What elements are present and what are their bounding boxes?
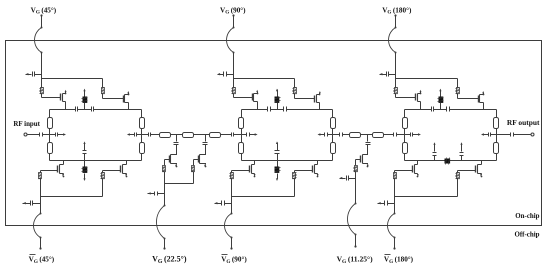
wire — [457, 178, 459, 197]
capacitor C16 series — [432, 107, 434, 112]
capacitor C5 series — [92, 107, 94, 112]
capacitor C31 bypass — [155, 192, 165, 196]
ground arrow — [380, 73, 387, 75]
wire — [355, 172, 357, 179]
wire gate right — [103, 94, 124, 99]
wire — [497, 134, 511, 136]
wire — [394, 204, 396, 215]
transistor M10 stage3 top right — [479, 91, 485, 110]
wire — [242, 134, 247, 136]
resistor R32 gate bias — [354, 166, 358, 172]
wire — [277, 161, 279, 168]
wire — [394, 171, 396, 173]
ground arrow — [23, 202, 31, 204]
inductor Lind5 stage3 top — [438, 97, 444, 103]
wire — [233, 79, 235, 88]
resistor R27 series — [210, 133, 221, 138]
wire — [355, 160, 357, 166]
wire — [440, 103, 442, 110]
capacitor C27 series — [394, 133, 397, 137]
wire — [40, 204, 42, 215]
node top pad VG(180°) — [394, 14, 396, 16]
capacitor C22 bypass — [385, 201, 395, 206]
capacitor C21 shunt — [460, 153, 464, 156]
wire — [393, 238, 395, 250]
wire — [277, 103, 279, 110]
resistor R18 gate bias — [456, 88, 460, 94]
wire — [50, 134, 56, 136]
capacitor C19 — [489, 133, 491, 137]
net VG(11.25deg) bias label — [337, 255, 374, 265]
capacitor C24 series — [149, 133, 151, 137]
resistor R11 edge — [239, 118, 244, 129]
resistor R30 gate bias — [163, 166, 166, 172]
wire — [333, 134, 340, 136]
wire — [193, 160, 195, 166]
RF input label — [13, 120, 40, 128]
wire — [151, 134, 160, 136]
wire bottom rail — [242, 160, 333, 162]
resistor R21 edge — [494, 118, 499, 129]
wire — [394, 178, 396, 197]
ground arrow — [148, 192, 155, 194]
wire — [39, 238, 41, 250]
transistor M8 stage2 bottom right — [295, 161, 319, 178]
wire — [233, 16, 235, 28]
bond wire bottom 22.5deg — [156, 206, 165, 240]
wire edge — [241, 110, 243, 118]
supply arrow up — [83, 89, 85, 97]
bond wire top 45° — [35, 27, 43, 54]
wire — [233, 53, 235, 79]
capacitor C10 series — [268, 107, 271, 112]
resistor R29 series — [373, 133, 384, 138]
bond wire bottom 11.25deg — [347, 204, 356, 236]
wire edge — [49, 129, 51, 143]
wire — [194, 134, 210, 136]
wire — [355, 179, 357, 205]
transistor M3 stage1 bottom left — [41, 161, 65, 178]
wire gate left — [234, 94, 253, 98]
svg-text:VG (90°): VG (90°) — [220, 6, 246, 15]
net VG(180°) top bias label — [382, 6, 412, 15]
capacitor C33 bypass — [347, 176, 356, 181]
transistor M9 stage3 top left — [416, 90, 422, 110]
wire edge — [496, 110, 498, 118]
resistor R2 gate bias — [102, 88, 105, 94]
wire — [395, 79, 397, 88]
wire — [40, 178, 42, 197]
capacitor C23 input — [40, 133, 43, 137]
wire edge — [141, 110, 143, 118]
resistor R28 series — [350, 133, 361, 138]
net VG(90°) top bias label — [220, 6, 246, 15]
capacitor C12 — [247, 133, 250, 137]
wire top rail — [405, 109, 432, 111]
port RF output — [531, 133, 534, 136]
wire edge — [49, 154, 51, 161]
wire — [461, 156, 463, 161]
wire — [84, 161, 86, 168]
wire shunt branch — [367, 135, 369, 142]
resistor R15 gate bias — [230, 173, 234, 179]
wire — [434, 156, 436, 161]
wire — [354, 235, 356, 248]
bond wire bottom 90° — [225, 214, 233, 239]
capacitor C2 bypass — [224, 72, 234, 77]
resistor R26 series — [183, 133, 194, 138]
wire — [176, 145, 178, 153]
ground arrow — [217, 73, 223, 75]
wire — [231, 197, 233, 204]
arrow into stage right — [318, 133, 325, 135]
svg-text:RF input: RF input — [13, 120, 40, 128]
RF output label — [507, 119, 540, 127]
wire — [193, 172, 195, 184]
wire — [231, 171, 233, 173]
resistor R14 edge — [331, 143, 336, 154]
wire — [171, 134, 183, 136]
resistor R22 edge — [494, 143, 499, 154]
resistor R6 edge — [140, 143, 145, 154]
wire — [164, 194, 166, 207]
wire — [367, 145, 369, 153]
wire top rail — [271, 109, 284, 111]
wire — [137, 134, 142, 136]
wire bias line 22.5deg — [165, 183, 194, 185]
wire edge — [404, 129, 406, 143]
wire — [164, 172, 166, 184]
wire — [102, 171, 104, 173]
wire top bias rail — [396, 78, 458, 80]
ground arrow — [26, 73, 32, 75]
transistor M6 stage2 top right — [315, 91, 321, 110]
wire bottom rail — [405, 160, 497, 162]
resistor R17 gate bias — [394, 88, 398, 94]
wire — [41, 53, 43, 79]
ground arrow — [215, 202, 222, 204]
capacitor C8 shunt — [83, 151, 87, 154]
bond wire top 180° — [389, 27, 397, 54]
wire — [384, 134, 394, 136]
wire — [164, 160, 166, 166]
wire — [163, 239, 165, 250]
wire — [231, 204, 233, 215]
wire edge — [141, 129, 143, 143]
svg-text:On-chip: On-chip — [515, 212, 539, 220]
wire — [405, 134, 411, 136]
resistor R20 edge — [403, 143, 408, 154]
supply arrow up — [276, 89, 278, 97]
capacitor C11 series — [284, 107, 287, 112]
capacitor C17 series — [447, 107, 450, 112]
net VG(45°) top bias label — [31, 6, 57, 15]
port RF input — [24, 133, 27, 136]
resistor R19 edge — [403, 118, 408, 129]
wire — [41, 16, 43, 28]
On-chip label — [515, 212, 539, 220]
wire edge — [332, 129, 334, 143]
capacitor C28 output — [511, 133, 514, 137]
svg-text:VG (180°): VG (180°) — [384, 256, 414, 265]
transistor M2 stage1 top right — [124, 91, 130, 110]
resistor R10 gate bias — [293, 88, 297, 94]
transistor M14 shunt switch 22.5° b — [194, 153, 207, 168]
wire — [102, 178, 104, 197]
wire gate right — [458, 94, 479, 99]
net inverted VG(90°) bottom bias label — [221, 255, 247, 266]
wire gate left — [42, 94, 61, 98]
ground arrow down — [83, 174, 85, 182]
svg-text:VG (180°): VG (180°) — [382, 6, 412, 15]
wire edge — [241, 154, 243, 161]
resistor R13 edge — [331, 118, 336, 129]
capacitor C26 series — [340, 133, 343, 137]
capacitor C6 — [56, 133, 58, 137]
wire — [40, 197, 42, 204]
capacitor C30 shunt — [203, 143, 208, 145]
transistor M15 shunt switch 11.25° — [356, 153, 369, 168]
transistor M11 stage3 bottom left — [395, 161, 419, 178]
capacitor C20 shunt — [433, 153, 437, 156]
supply arrow up — [83, 141, 85, 150]
wire — [343, 134, 350, 136]
wire — [164, 184, 166, 194]
svg-text:Off-chip: Off-chip — [514, 230, 539, 238]
svg-text:VG (11.25°): VG (11.25°) — [337, 255, 374, 265]
wire — [40, 171, 42, 173]
transistor M13 shunt switch 22.5° a — [165, 153, 178, 168]
inductor Lind3 stage2 top — [275, 97, 281, 103]
capacitor C4 series — [76, 107, 78, 112]
wire top rail — [242, 109, 268, 111]
wire gate right — [295, 94, 315, 99]
net VG(22.5deg) bias label — [152, 255, 187, 265]
arrow into stage right — [481, 133, 489, 135]
chip boundary rectangle — [6, 41, 542, 226]
resistor R9 gate bias — [232, 88, 236, 94]
arrow into stage left — [250, 133, 258, 135]
wire top rail — [78, 109, 92, 111]
resistor R24 gate bias — [456, 173, 460, 179]
wire gate left — [396, 94, 416, 98]
supply arrow up — [433, 142, 435, 151]
wire edge — [404, 154, 406, 161]
resistor R1 gate bias — [40, 88, 44, 94]
wire — [230, 238, 232, 250]
supply arrow up — [439, 89, 441, 97]
bond wire top 90° — [227, 27, 235, 54]
capacitor C29 shunt — [174, 143, 179, 145]
transistor M5 stage2 top left — [253, 90, 259, 110]
capacitor C3 bypass — [387, 72, 396, 77]
wire — [142, 134, 149, 136]
wire — [397, 134, 405, 136]
wire — [28, 134, 40, 136]
net inverted VG(180°) bottom bias label — [384, 255, 414, 266]
svg-text:RF output: RF output — [507, 119, 540, 127]
wire — [395, 16, 397, 28]
transistor M7 stage2 bottom left — [232, 161, 256, 178]
capacitor C7 — [135, 133, 137, 137]
wire bottom bias line — [395, 196, 458, 198]
resistor R16 gate bias — [293, 173, 297, 179]
arrow into stage right — [127, 133, 135, 135]
wire bottom rail — [50, 160, 142, 162]
resistor R23 gate bias — [394, 173, 397, 179]
wire top bias rail — [42, 78, 103, 80]
wire edge — [141, 154, 143, 161]
wire — [457, 79, 459, 88]
wire — [294, 79, 296, 88]
arrow into stage left — [58, 133, 67, 135]
resistor R4 edge — [48, 143, 53, 154]
resistor R31 gate bias — [192, 166, 195, 172]
Off-chip label — [514, 230, 539, 238]
wire — [231, 178, 233, 197]
bond wire bottom 45° — [34, 214, 42, 239]
supply arrow up — [460, 142, 462, 151]
wire shunt branch — [176, 135, 178, 142]
wire — [84, 154, 86, 161]
capacitor C15 bypass — [222, 201, 232, 206]
wire bottom bias line — [232, 196, 295, 198]
wire bottom bias line — [41, 196, 103, 198]
wire — [457, 171, 459, 173]
resistor R3 edge — [48, 118, 53, 129]
resistor R8 gate bias — [101, 173, 105, 179]
ground arrow down — [276, 174, 278, 182]
transistor M12 stage3 bottom right — [458, 161, 483, 178]
wire — [41, 79, 43, 88]
capacitor C14 shunt — [275, 151, 280, 154]
wire top rail — [50, 109, 76, 111]
wire top rail — [450, 109, 497, 111]
capacitor C13 — [325, 133, 328, 137]
capacitor C9 bypass — [31, 201, 41, 206]
wire top bias rail — [234, 78, 295, 80]
capacitor C1 bypass — [33, 72, 42, 77]
transistor M1 stage1 top left — [61, 90, 67, 110]
wire — [328, 134, 333, 136]
inductor Lind2 stage1 bottom — [82, 167, 88, 173]
svg-text:VG (90°): VG (90°) — [221, 256, 247, 265]
wire edge — [49, 110, 51, 118]
wire edge — [332, 154, 334, 161]
wire — [491, 134, 497, 136]
wire — [514, 134, 531, 136]
resistor R5 edge — [140, 118, 145, 129]
inductor Lind6 stage3 bottom — [445, 158, 451, 165]
svg-text:VG (45°): VG (45°) — [29, 256, 55, 265]
wire — [221, 134, 232, 136]
wire top rail — [434, 109, 447, 111]
net inverted VG(45°) bottom bias label — [29, 255, 55, 266]
ground arrow — [339, 177, 345, 179]
wire top rail — [94, 109, 142, 111]
inductor Lind1 stage1 top — [82, 97, 88, 103]
node top pad VG(90°) — [232, 14, 234, 16]
wire top rail — [287, 109, 333, 111]
wire edge — [241, 129, 243, 143]
wire — [84, 103, 86, 110]
wire — [102, 79, 104, 88]
wire — [43, 134, 50, 136]
wire — [294, 171, 296, 173]
wire — [277, 154, 279, 161]
resistor R25 series — [160, 133, 171, 138]
bond wire bottom 180° — [388, 214, 396, 239]
wire edge — [332, 110, 334, 118]
supply arrow up — [276, 141, 278, 150]
wire — [294, 178, 296, 197]
arrow into stage left — [413, 133, 421, 135]
resistor R12 edge — [239, 143, 244, 154]
capacitor C25 series — [232, 133, 234, 137]
wire edge — [496, 129, 498, 143]
capacitor C18 — [411, 133, 413, 137]
wire edge — [404, 110, 406, 118]
wire — [361, 134, 373, 136]
capacitor C32 shunt — [366, 143, 371, 145]
wire — [205, 145, 207, 153]
ground arrow — [378, 202, 385, 204]
inductor Lind4 stage2 bottom — [275, 167, 281, 173]
node top pad VG(45°) — [40, 14, 42, 16]
transistor M4 stage1 bottom right — [103, 161, 128, 178]
resistor R7 gate bias — [39, 173, 42, 179]
svg-text:VG (45°): VG (45°) — [31, 6, 57, 15]
wire — [234, 134, 242, 136]
wire shunt branch — [205, 135, 207, 142]
wire — [395, 53, 397, 79]
svg-text:VG (22.5°): VG (22.5°) — [152, 255, 187, 265]
wire — [394, 197, 396, 204]
wire edge — [496, 154, 498, 161]
